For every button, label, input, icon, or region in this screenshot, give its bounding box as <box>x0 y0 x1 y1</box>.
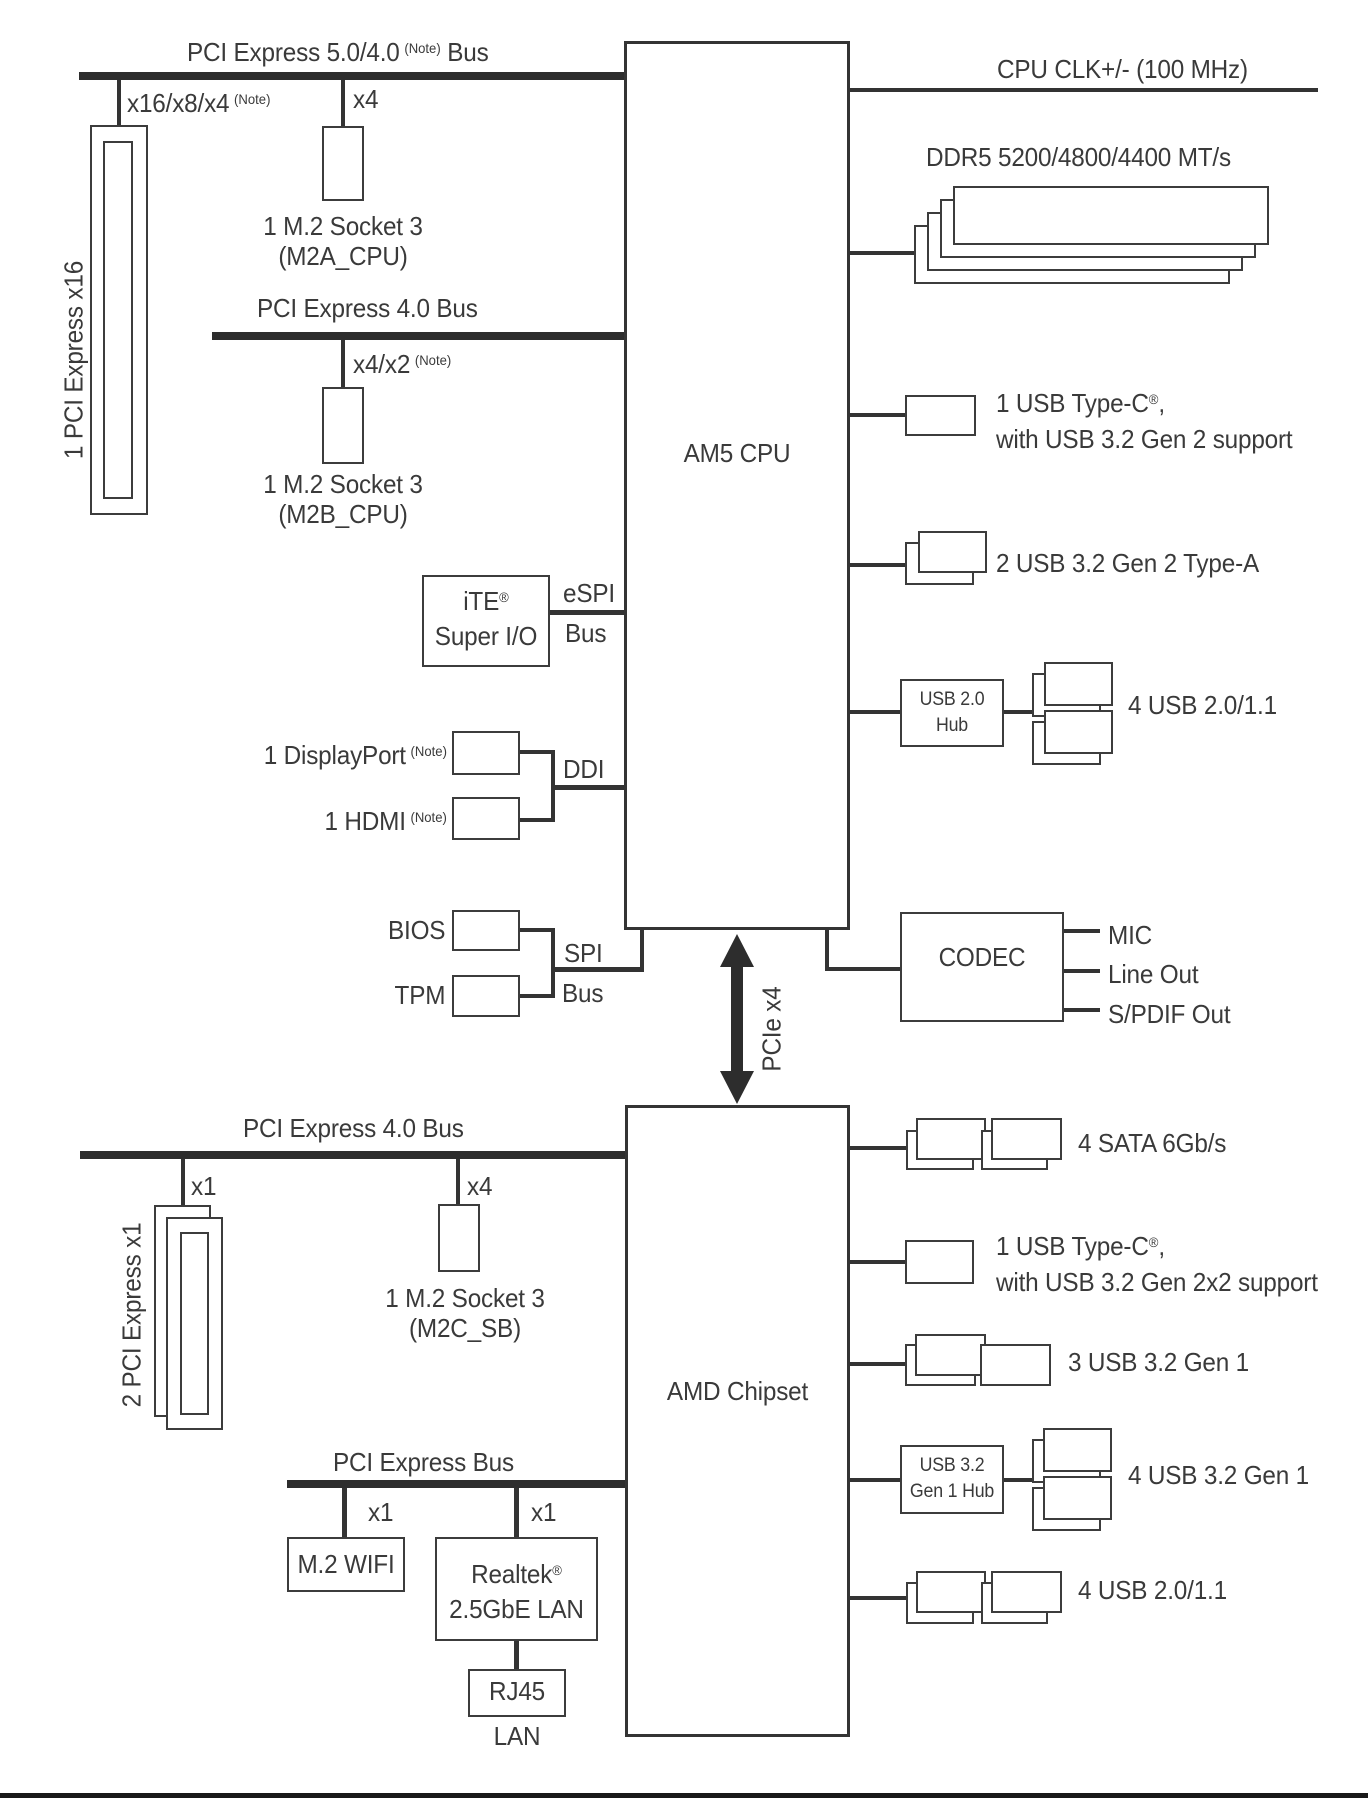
PCIe x1 slot back <box>154 1205 211 1417</box>
label x1 (slot) <box>191 1171 216 1201</box>
bus: PCI Express 5.0/4.0 <box>79 72 624 80</box>
label PCI Express 5.0/4.0 Bus <box>187 33 489 67</box>
label Realtek 2.5GbE LAN <box>440 1553 592 1627</box>
label x4/x2 <box>353 345 451 379</box>
USB Type-C box (CPU) <box>905 395 976 436</box>
USB2 bottom back box 2 <box>981 1582 1048 1624</box>
wire hub to USB2 boxes <box>1004 710 1032 714</box>
bus: PCI Express 4.0 (CPU) <box>212 332 624 340</box>
wire chipset to USB-C 2x2 <box>850 1260 905 1264</box>
USB2 bottom front box 1 <box>916 1571 986 1613</box>
wire hub to gen1 boxes <box>1004 1478 1032 1482</box>
label BIOS <box>388 915 445 945</box>
PCI Express x16 slot <box>90 125 148 515</box>
AMD Chipset label <box>632 1376 842 1406</box>
TPM box <box>452 975 520 1017</box>
SATA front box 1 <box>916 1118 986 1160</box>
wire MIC stub <box>1064 929 1100 933</box>
label x4 <box>353 84 378 114</box>
label 3 USB 3.2 Gen 1 <box>1068 1347 1249 1377</box>
iTE Super I/O box <box>422 575 550 667</box>
AM5 CPU box <box>624 41 850 930</box>
USB2 back bottom box <box>1032 721 1101 765</box>
label 1 USB Type-C with Gen2 <box>996 382 1292 457</box>
label S/PDIF Out <box>1108 999 1230 1029</box>
label 4 USB 2.0/1.1 <box>1128 690 1277 720</box>
PCIe x4 arrow bottom head <box>720 1071 754 1104</box>
USB 3.2 Gen 1 Hub box <box>900 1445 1004 1514</box>
label DDI <box>563 754 604 784</box>
SATA back box 1 <box>906 1130 974 1170</box>
label USB 3.2 Gen 1 Hub <box>903 1453 1000 1505</box>
bus: PCI Express 4.0 (chipset) <box>80 1151 625 1159</box>
label M.2 WIFI <box>291 1549 401 1579</box>
wire bus to M.2 WIFI <box>342 1488 347 1537</box>
label CPU CLK <box>997 54 1248 84</box>
CODEC box <box>900 912 1064 1022</box>
label 2 PCI Express x1 (rotated) <box>117 1223 148 1408</box>
label 1 DisplayPort <box>264 736 447 770</box>
BIOS box <box>452 910 520 951</box>
wire CPU CLK <box>850 88 1318 92</box>
HDMI box <box>452 797 520 840</box>
label x1 (lan) <box>531 1497 556 1527</box>
SATA back box 2 <box>981 1130 1048 1170</box>
DIMM 3 <box>927 212 1243 271</box>
wire CPU to codec (horizontal) <box>825 967 900 971</box>
wire bus to Realtek <box>514 1488 519 1537</box>
PCIe x1 slot inner <box>180 1232 209 1415</box>
wire: bus to x16 slot <box>117 80 121 126</box>
wire chipset to 3 USB gen1 <box>850 1362 905 1366</box>
PCIe x4 arrow shaft <box>731 962 743 1080</box>
M.2 socket M2A_CPU box <box>322 126 364 201</box>
label 4 SATA 6Gb/s <box>1078 1128 1226 1158</box>
label TPM <box>394 980 445 1010</box>
label Bus (SPI) <box>562 978 603 1008</box>
Realtek LAN box <box>435 1537 598 1641</box>
label 2 USB 3.2 Gen 2 Type-A <box>996 548 1259 578</box>
USB2 back top box <box>1032 673 1101 717</box>
AMD Chipset box <box>625 1105 850 1737</box>
USB2 front bottom box <box>1044 710 1113 754</box>
label USB 2.0 Hub <box>903 687 1000 739</box>
wire CPU to USB 3.2 Gen2 <box>850 563 905 567</box>
wire CPU to USB2 hub <box>850 710 900 714</box>
USB2 bottom front box 2 <box>991 1571 1062 1613</box>
USB Type-C box (chipset) <box>905 1240 974 1284</box>
label PCI Express 4.0 Bus (chipset) <box>243 1113 464 1143</box>
label iTE Super I/O <box>426 580 546 653</box>
label SPI <box>564 938 603 968</box>
wire chipset to SATA <box>850 1146 906 1150</box>
label MIC <box>1108 920 1152 950</box>
wire chipset to USB2 (bottom) <box>850 1596 906 1600</box>
gen1 front bottom box <box>1043 1476 1112 1520</box>
DisplayPort box <box>452 731 520 775</box>
label eSPI <box>563 578 615 608</box>
x16 slot inner <box>103 141 133 499</box>
wire HDMI stub <box>520 818 555 822</box>
AM5 CPU label <box>631 438 842 468</box>
label 1 USB Type-C 2x2 <box>996 1225 1318 1300</box>
label 4 USB 3.2 Gen 1 <box>1128 1460 1309 1490</box>
label LAN <box>471 1721 563 1751</box>
wire CPU to DIMMs <box>850 251 916 255</box>
wire SPI vertical <box>551 928 555 998</box>
label RJ45 <box>471 1676 563 1706</box>
label x16/x8/x4 <box>127 84 270 118</box>
wire bus to M2C <box>456 1159 460 1204</box>
M.2 socket M2B_CPU box <box>322 387 364 464</box>
label 1 M.2 Socket 3 (M2C_SB) <box>353 1283 577 1343</box>
M.2 WIFI box <box>287 1537 405 1592</box>
wire: bus to M2A <box>341 80 345 126</box>
USB 3.2 Gen2 back box <box>905 542 974 585</box>
label 1 M.2 Socket 3 (M2A_CPU) <box>231 211 455 271</box>
label CODEC <box>905 942 1058 972</box>
gen1 front top box <box>1043 1428 1112 1472</box>
wire eSPI bus <box>550 610 624 615</box>
wire chipset to gen1 hub <box>850 1478 900 1482</box>
label DDR5 <box>926 142 1231 172</box>
label x4 (M2C) <box>467 1171 492 1201</box>
label PCIe x4 (rotated) <box>757 986 788 1071</box>
SATA front box 2 <box>991 1118 1062 1160</box>
label 4 USB 2.0/1.1 (chipset) <box>1078 1575 1227 1605</box>
USB gen1 front box <box>915 1334 986 1376</box>
label x1 (wifi) <box>368 1497 393 1527</box>
USB2 front top box <box>1044 662 1113 706</box>
DIMM 1 <box>953 186 1269 245</box>
bus: PCI Express Bus (chipset) <box>287 1480 625 1488</box>
label PCI Express Bus <box>333 1447 514 1477</box>
label 1 PCI Express x16 (rotated) <box>59 261 90 459</box>
gen1 back bottom box <box>1032 1487 1101 1531</box>
RJ45 box <box>468 1669 566 1717</box>
wire TPM stub <box>520 994 555 998</box>
bottom black bar <box>0 1793 1368 1798</box>
PCIe x4 arrow top head <box>720 934 754 967</box>
M.2 socket M2C_SB box <box>438 1204 480 1272</box>
wire DP stub <box>520 750 555 754</box>
USB gen1 back box <box>905 1344 976 1386</box>
label Line Out <box>1108 959 1198 989</box>
wire Line Out stub <box>1064 969 1100 973</box>
wire BIOS stub <box>520 928 555 932</box>
label 1 HDMI <box>325 802 447 836</box>
USB 3.2 Gen2 front box <box>918 531 987 573</box>
DIMM 2 <box>940 199 1256 258</box>
USB2 bottom back box 1 <box>906 1582 974 1624</box>
label Bus (eSPI) <box>565 618 606 648</box>
label PCI Express 4.0 Bus <box>257 293 478 323</box>
USB gen1 third box <box>980 1344 1051 1386</box>
DIMM 4 <box>914 225 1230 284</box>
wire CPU to codec (vertical) <box>825 930 829 971</box>
wire SPDIF stub <box>1064 1008 1100 1012</box>
wire DDI horizontal <box>551 785 624 790</box>
gen1 back top box <box>1032 1439 1101 1483</box>
USB 2.0 Hub box <box>900 679 1004 747</box>
label 1 M.2 Socket 3 (M2B_CPU) <box>231 469 455 529</box>
wire SPI up to CPU <box>640 930 644 970</box>
PCIe x1 slot front <box>166 1217 223 1430</box>
wire: bus to M2B <box>341 340 345 387</box>
wire CPU to USB-C <box>850 413 905 417</box>
wire DDI vertical <box>551 750 555 822</box>
wire SPI horizontal <box>551 967 644 972</box>
wire Realtek to RJ45 <box>514 1641 519 1669</box>
wire bus to x1 slots <box>181 1159 185 1205</box>
